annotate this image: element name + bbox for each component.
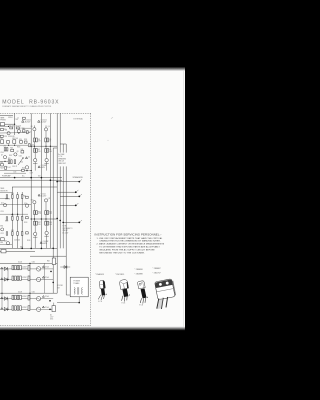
transistor Q14 (34, 232, 37, 235)
P2 dark right face (127, 282, 129, 289)
transistor Q4 (44, 128, 47, 131)
P4 mid line (157, 289, 174, 292)
ps1 top wire (0, 262, 57, 264)
ps2 wire row1 (0, 298, 36, 300)
svg-text:* 2SC1815: * 2SC1815 (115, 274, 124, 276)
resistor pair R3 R4 (34, 138, 36, 142)
ps2L a wave (37, 298, 41, 299)
ps2 dot1 (49, 300, 51, 302)
svg-text:R7: R7 (38, 149, 40, 151)
resistor ps2R a (12, 295, 14, 299)
mid junction y219 b (41, 218, 42, 219)
T1 coil right (81, 288, 82, 295)
transistor Q9 (25, 166, 28, 169)
Q15 leads (44, 235, 48, 237)
svg-text:R31: R31 (11, 215, 14, 217)
T1 down dot (78, 302, 80, 304)
note text block N2 (63, 226, 74, 235)
P4 slab outline (155, 279, 175, 299)
diode ps21 (4, 297, 7, 301)
P3 black body (141, 288, 147, 298)
upper junction f2 (8, 126, 9, 127)
P3 lead 1 (140, 298, 141, 303)
cap C4 (25, 157, 27, 159)
resistor pair R29 R30 (45, 221, 47, 225)
svg-text:USE 4-8: USE 4-8 (58, 161, 64, 163)
svg-text:PHONO: PHONO (0, 120, 6, 122)
mid vertical stub Q15 up (46, 225, 48, 231)
mid vertical stub Q15 dn (46, 235, 48, 249)
mid vertical stub Q14 up (34, 225, 36, 232)
junction dot bus4 (50, 179, 52, 181)
ps junction b (29, 293, 30, 294)
resistor pair R5 R6 (45, 138, 47, 142)
ps1 right wire2 (41, 279, 53, 281)
svg-text:R25: R25 (49, 211, 52, 213)
transistor Q16 (6, 242, 9, 245)
terminal arrow 3 (80, 194, 82, 195)
resistor ps2R b (15, 295, 17, 299)
bus upper line1 (0, 177, 62, 179)
note text block N1 (58, 153, 66, 165)
svg-text:C47: C47 (24, 296, 27, 298)
svg-text:D5-D8: D5-D8 (18, 291, 22, 293)
resistor R36 (17, 232, 19, 236)
svg-text:OHM ONLY: OHM ONLY (58, 163, 66, 165)
mid res R39 (26, 196, 29, 198)
ps21 safety mark (1, 297, 3, 299)
ps junction a (29, 263, 30, 264)
P1 lead 3 (103, 295, 106, 299)
svg-text:L / TH: L / TH (58, 156, 62, 158)
P2 center line (124, 284, 125, 290)
svg-text:MODEL RB-9603X: MODEL RB-9603X (2, 100, 59, 106)
junction dot u3 (22, 157, 23, 158)
resistor pair R27 R28 (34, 221, 36, 225)
resistor R13 (13, 140, 16, 144)
svg-text:R109: R109 (0, 168, 3, 170)
svg-text:E C B: E C B (98, 301, 102, 303)
transistor package P4 TO-3P (155, 279, 176, 309)
lamp ps2L a (36, 297, 40, 301)
ps1 mid vertical a (7, 269, 9, 280)
svg-text:60Hz: 60Hz (50, 319, 54, 321)
svg-text:R126: R126 (27, 240, 30, 242)
svg-text:Q8: Q8 (17, 151, 19, 153)
bus upper line2 (0, 179, 62, 181)
ps1L a safety (42, 266, 44, 268)
mid vertical stub Q11 dn (45, 202, 47, 211)
resistor ps2R f (20, 295, 22, 299)
P4 lead shade (157, 298, 163, 309)
upper extra box E (22, 169, 25, 171)
svg-text:Q13: Q13 (24, 203, 27, 205)
ps2 right wire2 (41, 308, 53, 310)
cap C9 (5, 166, 7, 169)
diag wire (18, 158, 23, 165)
mid wire 219 (31, 218, 57, 220)
svg-text:* 2SB698: * 2SB698 (135, 269, 143, 271)
svg-text:1. USE ONLY REPLACEMENT PARTS: 1. USE ONLY REPLACEMENT PARTS THAT HAVE … (97, 237, 164, 240)
power transformer T1 box (70, 277, 88, 297)
cap ps2C a (28, 295, 30, 300)
svg-text:C120: C120 (0, 211, 3, 213)
speaker terminal dot 4 (75, 205, 77, 207)
vertical wire W60 (59, 113, 61, 248)
svg-text:Q12: Q12 (1, 202, 4, 204)
junction dot bus1 (14, 177, 16, 179)
cap ps2C b (28, 306, 30, 311)
svg-text:INSULATED FROM THE AC SUPPLY C: INSULATED FROM THE AC SUPPLY CIRCUIT BEF… (99, 248, 155, 251)
vertical stub Q3 down (33, 131, 35, 138)
wire row 170 (0, 170, 31, 172)
speaker terminal wire 4 (60, 204, 75, 206)
resistor pair R9 R10 (45, 148, 47, 152)
svg-text:INSTRUCTION FOR SERVICING PERS: INSTRUCTION FOR SERVICING PERSONNEL:- (95, 232, 162, 236)
svg-text:C3 100P: C3 100P (41, 165, 47, 167)
svg-text:SW1: SW1 (0, 226, 3, 228)
top black band (0, 0, 185, 71)
wire stub 148 (53, 147, 57, 149)
svg-text:B1+: B1+ (22, 176, 25, 178)
wire row 124b (0, 125, 8, 127)
resistor R17 (14, 160, 16, 164)
mid vertical stub R25 dn (45, 215, 47, 222)
lamp ps2L b (36, 307, 40, 311)
ps junction c (1, 293, 2, 294)
vertical wire V12b (11, 187, 13, 248)
resistor R35 (12, 232, 14, 236)
transistor Q13 (25, 204, 28, 207)
vertical wire V50 (49, 113, 51, 248)
resistor R18 (21, 151, 24, 153)
resistor R50 (22, 130, 25, 132)
T1 wire left (57, 302, 79, 304)
junction dot B (59, 220, 61, 222)
wire row 145 (0, 144, 28, 146)
P2 can outline (120, 280, 129, 290)
resistor R51 (1, 128, 4, 130)
P1 dark right stripe (103, 280, 106, 288)
transistor package P2 TO-92L (120, 280, 130, 305)
mid cap C17 (6, 232, 8, 235)
terminal arrow 5 (80, 220, 82, 221)
junction dot x1 (34, 146, 35, 147)
svg-text:C47: C47 (24, 307, 27, 309)
svg-text:C113: C113 (31, 144, 34, 146)
speaker terminal wire 2 (57, 191, 75, 193)
speaker terminal wire 3 (60, 195, 78, 197)
svg-text:E C B: E C B (122, 303, 126, 305)
svg-text:R13 10K: R13 10K (12, 138, 17, 140)
svg-text:* 2SD898: * 2SD898 (135, 274, 143, 276)
svg-text:R9: R9 (49, 149, 51, 151)
mid res R52 (26, 232, 29, 234)
svg-text:R27: R27 (38, 222, 41, 224)
junction dot m3 (30, 248, 32, 250)
transistor Q2 (17, 130, 20, 133)
svg-text:220: 220 (38, 224, 41, 226)
wire J1 (5, 123, 15, 125)
P1 side dot (106, 294, 107, 295)
mid cap C15 (6, 195, 8, 198)
terminal arrow 4 (77, 203, 79, 204)
resistor ps1R a (12, 265, 14, 269)
svg-text:C105: C105 (19, 156, 22, 158)
junction dot A (56, 218, 58, 220)
P4 hole right (166, 281, 169, 284)
junction dot x6 (31, 170, 32, 171)
speaker terminal dot 2 (75, 191, 77, 193)
P3 lead 2 (142, 298, 145, 303)
resistor ps2R d (15, 306, 17, 310)
svg-text:4.7K: 4.7K (38, 213, 41, 215)
bus label box (1, 249, 6, 253)
terminal arrow 2 (77, 190, 79, 191)
resistor ps1R c (12, 276, 14, 280)
svg-text:C109: C109 (30, 172, 33, 174)
P4 right edge shade (172, 281, 176, 296)
svg-text:Q10: Q10 (31, 199, 34, 201)
vertical wire V22b (21, 192, 23, 248)
ps2L b wave (37, 309, 41, 310)
P2 top bevel (120, 282, 127, 284)
vertical stub Q6 up (46, 152, 48, 158)
mid vertical stub Q10 dn (33, 204, 35, 211)
svg-text:R103 8.2K: R103 8.2K (8, 136, 14, 138)
resistor R21 (17, 195, 19, 199)
resistor ps1R d (15, 276, 17, 280)
mid horizontal wire 146 (31, 145, 57, 147)
Q5 leads (33, 162, 37, 164)
P4 top dark band (155, 280, 173, 288)
resistor R34 (1, 238, 5, 241)
diode D9 (64, 266, 67, 269)
lamp ps1L a (36, 267, 40, 271)
vertical wire W53 (52, 148, 54, 293)
TRANSISTOR PACKAGE DRAWINGS (95, 117, 176, 309)
ps1 right wire1 (41, 268, 53, 270)
resistor R32 (17, 216, 19, 220)
svg-text:R35: R35 (11, 230, 14, 232)
dust speck 1 (111, 117, 113, 118)
svg-text:NOTE:: NOTE: (63, 226, 68, 228)
svg-text:C2 0.022: C2 0.022 (41, 120, 47, 122)
resistor ps1R b (15, 265, 17, 269)
ps1 wire row1 (0, 268, 36, 270)
wire row 2446 (0, 244, 12, 246)
transistor Q6 (45, 159, 48, 162)
ps2L a safety (42, 296, 44, 298)
diode ps12 (4, 278, 7, 282)
svg-text:SW101: SW101 (8, 117, 13, 119)
ps12 safety mark (1, 278, 3, 280)
T1 wire down (78, 297, 80, 303)
svg-text:50WV: 50WV (41, 167, 45, 169)
ps2 mid vertical a (7, 299, 9, 310)
upper extra box B (0, 135, 3, 137)
switch SW1 (1, 228, 4, 231)
bus-transformer wire (30, 255, 66, 257)
svg-text:C4: C4 (28, 156, 30, 158)
svg-text:R107: R107 (9, 155, 12, 157)
junction dot x5 (14, 124, 15, 125)
svg-text:220: 220 (38, 151, 41, 153)
T1 core line2 (78, 287, 80, 294)
P4 lead 3 (166, 297, 168, 307)
dashed frame bottom (0, 324, 91, 326)
vertical wire W66 (65, 144, 67, 295)
input jack J1 (0, 123, 4, 126)
svg-text:CHARACTERISTICS RECOMMENDED BY: CHARACTERISTICS RECOMMENDED BY MANUFACTU… (99, 240, 161, 243)
svg-text:R34: R34 (0, 242, 3, 244)
svg-text:35V: 35V (38, 176, 41, 178)
ps left vertical (1, 269, 3, 309)
ps1L a wave (37, 268, 41, 269)
mid wire 1926 (0, 192, 12, 194)
ps2L b safety (42, 306, 44, 308)
ps1L b wave (37, 279, 41, 280)
mid wire 1986 (0, 198, 9, 200)
svg-text:C132: C132 (32, 291, 35, 293)
ps vertical x44 (44, 263, 46, 293)
vertical wire W57 (56, 113, 58, 293)
transistor Q10 (33, 201, 36, 204)
junction dot E (52, 248, 54, 250)
svg-text:R38: R38 (0, 162, 3, 164)
resistor R12 (7, 141, 10, 144)
svg-text:50WV: 50WV (43, 243, 47, 245)
transistor Q8 (14, 153, 17, 156)
dashed frame top (0, 112, 91, 114)
resistor ps2R g (17, 306, 19, 310)
mid junction y219 a (31, 218, 32, 219)
svg-text:C9 47: C9 47 (7, 167, 11, 169)
P1 lead 1 (98, 295, 101, 300)
vertical stub R5 down (45, 142, 47, 149)
vertical wire V41 (40, 113, 42, 248)
resistor R19 (11, 149, 14, 151)
ps2 wire row2 (0, 308, 36, 310)
P4 lead 1 (157, 299, 159, 309)
amp top wire (12, 186, 57, 188)
svg-text:C115: C115 (13, 172, 16, 174)
safety cap C6 (40, 242, 42, 244)
speaker terminal wire 5 (63, 221, 78, 223)
mid res R49 (26, 217, 29, 219)
vertical wire V14 (14, 113, 16, 135)
T1 core line1 (77, 287, 79, 294)
vertical stub Q6 down (46, 162, 48, 171)
ps2 dot2 (49, 309, 51, 311)
upper wire 161 (0, 160, 8, 162)
svg-text:R15: R15 (8, 158, 11, 160)
resistor R1 (10, 127, 13, 129)
svg-text:SPEAKERS: SPEAKERS (73, 176, 84, 179)
mid vertical stub Q14 dn (34, 236, 36, 249)
upper junction f1 (18, 132, 19, 133)
P2 lead 1 (122, 296, 123, 301)
svg-text:C124 100: C124 100 (14, 240, 20, 242)
svg-text:C14: C14 (29, 131, 32, 133)
upper extra box C (24, 141, 27, 143)
resistor pair R25 R26 (45, 211, 47, 215)
upper junction f4 (4, 161, 5, 162)
dashed frame right (90, 113, 92, 325)
junction dot u1 (14, 145, 15, 146)
resistor ps1R h (20, 276, 22, 280)
svg-text:C1 0.022: C1 0.022 (25, 120, 31, 122)
svg-text:E C B: E C B (139, 304, 143, 306)
junction dot x4 (50, 146, 51, 147)
speaker terminal dot 3 (78, 196, 80, 198)
svg-text:R2 2.2K: R2 2.2K (16, 125, 21, 127)
ps x30 vertical (29, 263, 31, 309)
svg-text:Q7: Q7 (1, 154, 3, 156)
junction dot C (62, 222, 64, 224)
cap C7 (4, 148, 6, 151)
mid cap C16 (6, 217, 8, 220)
mid vertical stub R23 dn (33, 215, 35, 222)
svg-text:R105: R105 (17, 146, 20, 148)
svg-text:C107 47: C107 47 (12, 166, 17, 168)
svg-text:R18: R18 (21, 149, 24, 151)
P1 bevel line (100, 283, 104, 286)
P3 tab outline (138, 281, 146, 289)
vertical stub Q4 up (45, 125, 47, 127)
svg-text:Q3: Q3 (31, 126, 33, 128)
svg-text:C5 0.01: C5 0.01 (41, 194, 46, 196)
ps1 dot2 (52, 282, 54, 284)
svg-text:560: 560 (49, 151, 52, 153)
vertical wire V17b (17, 192, 19, 248)
svg-text:R11: R11 (0, 138, 3, 140)
svg-text:R48: R48 (47, 260, 50, 262)
junction dot D (56, 181, 58, 183)
svg-text:C130: C130 (32, 262, 35, 264)
resistor R48 (52, 258, 55, 265)
junction dot m5 (21, 248, 23, 250)
wire row 204 (0, 203, 31, 205)
cap C14 (27, 131, 29, 134)
ps11 safety mark (1, 267, 3, 269)
svg-text:R3: R3 (38, 139, 40, 141)
vertical stub Q3 up (33, 125, 35, 127)
svg-text:C111: C111 (4, 136, 7, 138)
svg-text:EXTERNAL: EXTERNAL (74, 118, 84, 121)
ps junction e (7, 309, 8, 310)
transistor package P3 TO-126 (138, 281, 148, 307)
svg-text:POWER: POWER (58, 285, 63, 287)
upper junction f3 (26, 170, 27, 171)
P3 inner hatch (141, 282, 144, 288)
resistor ps1R g (17, 276, 19, 280)
cap C8 (6, 148, 8, 151)
resistor R14 (20, 141, 23, 144)
ps1L b safety (42, 276, 44, 278)
transistor Q3 (33, 128, 36, 131)
ps22 safety mark (1, 308, 3, 310)
speaker terminal dot 5 (78, 222, 80, 224)
P2 side dot (129, 295, 130, 296)
bus lower line1 (0, 247, 57, 249)
junction dot m2 (17, 214, 18, 215)
wire row 173 (4, 172, 26, 174)
svg-text:TRANS: TRANS (73, 282, 80, 285)
resistor R31 (12, 216, 14, 220)
svg-text:120V: 120V (50, 317, 53, 319)
ps1 wire row2 (0, 279, 36, 281)
